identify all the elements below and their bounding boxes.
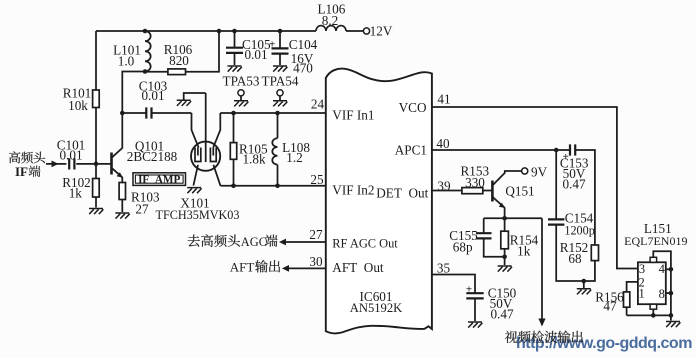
svg-text:35: 35 [437, 260, 451, 275]
svg-text:AN5192K: AN5192K [350, 301, 402, 315]
svg-text:AGC: AGC [241, 235, 267, 249]
svg-text:27: 27 [135, 201, 149, 216]
svg-text:68p: 68p [453, 240, 473, 255]
svg-text:0.47: 0.47 [490, 306, 513, 321]
svg-text:TFCH35MVK03: TFCH35MVK03 [156, 208, 240, 222]
svg-text:9V: 9V [531, 165, 548, 180]
svg-text:820: 820 [169, 53, 189, 68]
svg-text:Q151: Q151 [505, 184, 534, 199]
svg-text:VIF In2: VIF In2 [332, 182, 374, 197]
svg-text:1.0: 1.0 [118, 53, 135, 68]
svg-text:3: 3 [639, 262, 645, 276]
svg-text:25: 25 [310, 172, 324, 187]
svg-text:1: 1 [638, 286, 644, 300]
svg-text:4: 4 [659, 262, 666, 276]
svg-text:0.01: 0.01 [244, 47, 267, 62]
svg-text:10k: 10k [68, 98, 88, 113]
svg-text:2BC2188: 2BC2188 [127, 149, 178, 164]
svg-text:VIF In1: VIF In1 [332, 108, 374, 123]
svg-text:RF AGC Out: RF AGC Out [332, 236, 398, 250]
svg-text:27: 27 [309, 227, 323, 242]
svg-text:VCO: VCO [399, 100, 427, 115]
svg-text:24: 24 [311, 97, 325, 112]
svg-text:30: 30 [309, 254, 323, 269]
svg-text:1k: 1k [517, 244, 531, 259]
svg-text:40: 40 [436, 136, 450, 151]
svg-text:TPA53: TPA53 [223, 74, 260, 89]
svg-text:EQL7EN019: EQL7EN019 [624, 234, 687, 248]
svg-text:C104: C104 [289, 37, 318, 52]
svg-text:0.01: 0.01 [59, 148, 82, 163]
svg-text:0.47: 0.47 [562, 177, 585, 192]
svg-text:1k: 1k [69, 185, 83, 200]
svg-text:47: 47 [603, 299, 617, 314]
svg-text:1200p: 1200p [564, 224, 594, 238]
svg-text:IF: IF [15, 164, 28, 179]
svg-text:TPA54: TPA54 [262, 74, 299, 89]
svg-text:APC1: APC1 [395, 143, 427, 158]
svg-text:IF AMP: IF AMP [138, 174, 180, 186]
svg-text:0.01: 0.01 [141, 88, 164, 103]
svg-text:39: 39 [437, 179, 451, 194]
svg-text:DET Out: DET Out [376, 185, 428, 200]
svg-text:+: + [466, 283, 472, 295]
svg-text:8.2: 8.2 [322, 13, 338, 28]
svg-text:41: 41 [437, 92, 450, 107]
svg-text:AFT Out: AFT Out [332, 260, 384, 275]
svg-text:12V: 12V [370, 24, 393, 39]
svg-text:1.8k: 1.8k [242, 152, 265, 167]
svg-text:330: 330 [465, 175, 485, 190]
svg-text:AFT: AFT [230, 260, 255, 275]
svg-text:1.2: 1.2 [286, 150, 302, 165]
svg-text:68: 68 [568, 251, 582, 266]
svg-text:8: 8 [659, 287, 665, 301]
